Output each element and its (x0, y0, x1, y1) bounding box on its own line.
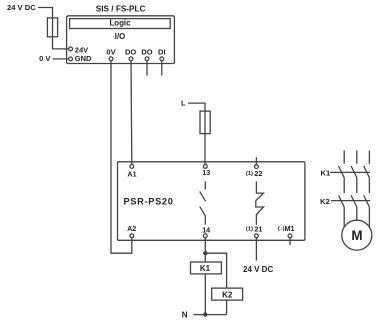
svg-text:K2: K2 (222, 290, 233, 299)
NO contact 13-14 (two in series) (204, 182, 206, 190)
wire 14 down to N (204, 238, 206, 315)
terminal circles PLC (69, 47, 292, 238)
svg-text:I/O: I/O (115, 32, 125, 41)
coil K1 (191, 262, 222, 274)
terminal GND (69, 57, 73, 61)
wire DO down to A1 (130, 61, 133, 165)
wire 0V down to A2 (111, 61, 132, 254)
terminal DO2 (145, 57, 149, 61)
NC contact 22-21 (two in series) (256, 182, 264, 225)
stub DO2 (146, 61, 148, 76)
stub M1 ground (289, 238, 291, 245)
terminal 13 (203, 165, 207, 169)
svg-text:13: 13 (202, 168, 210, 177)
svg-text:24V: 24V (75, 45, 88, 54)
contactor K1 three-phase contacts (343, 150, 345, 163)
coil K2 (212, 288, 243, 300)
svg-text:SIS / FS-PLC: SIS / FS-PLC (96, 4, 146, 13)
motor M circle (342, 220, 372, 250)
terminal DI (160, 57, 164, 61)
terminal 24V (69, 47, 73, 51)
svg-text:DO: DO (125, 47, 136, 56)
svg-text:K2: K2 (320, 197, 330, 206)
fuse F2 (204, 111, 206, 134)
N wire (194, 314, 227, 316)
terminal DO1 (129, 57, 133, 61)
junction dot on N wire (203, 312, 207, 316)
svg-text:21: 21 (254, 224, 262, 233)
wire branch to K2 coil (205, 253, 226, 314)
svg-text:A2: A2 (127, 224, 136, 233)
svg-text:24 V DC: 24 V DC (7, 3, 36, 12)
svg-text:K1: K1 (321, 169, 331, 178)
svg-text:N: N (182, 311, 188, 320)
svg-text:Logic: Logic (109, 19, 131, 28)
svg-text:A1: A1 (127, 170, 136, 179)
svg-text:L: L (181, 99, 186, 108)
svg-text:M1: M1 (285, 224, 295, 233)
wire L to fuse F2 (188, 103, 205, 111)
svg-text:0V: 0V (106, 47, 115, 56)
terminal 0V (109, 57, 113, 61)
svg-text:DO: DO (141, 47, 152, 56)
svg-text:DI: DI (158, 47, 166, 56)
svg-text:M: M (351, 228, 362, 243)
svg-text:(1): (1) (246, 226, 253, 232)
wire 21 to 24 V DC (255, 238, 257, 261)
terminal A1 (130, 165, 134, 169)
terminal 22 (255, 165, 259, 169)
terminal A2 (130, 234, 134, 238)
svg-text:14: 14 (202, 225, 210, 234)
stub above terminal 22 (255, 157, 257, 164)
svg-text:22: 22 (254, 169, 262, 178)
wires to motor (343, 207, 345, 228)
terminal 14 (203, 234, 207, 238)
wire 0V to GND terminal (53, 58, 69, 60)
svg-text:24 V DC: 24 V DC (243, 265, 273, 274)
svg-text:(1): (1) (246, 171, 253, 177)
junction dot at 14 branch (203, 251, 207, 255)
svg-text:GND: GND (75, 54, 92, 63)
Logic box (70, 19, 171, 29)
stub DI (161, 61, 163, 76)
wire 24VDC supply to fuse F1 (38, 8, 53, 18)
terminal 21 (255, 234, 259, 238)
PLC box SIS / FS-PLC (67, 16, 175, 64)
terminal M1 (288, 234, 292, 238)
svg-text:PSR-PS20: PSR-PS20 (124, 196, 174, 206)
svg-text:0 V: 0 V (39, 54, 51, 63)
contactor K2 three-phase contacts (343, 178, 345, 193)
relay box PSR-PS20 (118, 162, 305, 241)
wire fuse F2 to terminal 13 (204, 134, 206, 165)
svg-text:K1: K1 (200, 264, 211, 273)
fuse F1 (53, 18, 69, 49)
